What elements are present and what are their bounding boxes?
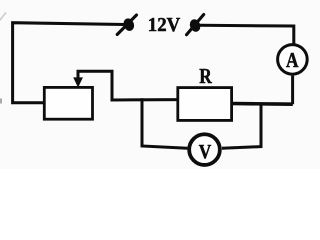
- wire : battery right terminal to top-right corner down to ammeter: [200, 25, 294, 43]
- svg-text:A: A: [286, 48, 299, 72]
- resistor R: [178, 64, 232, 120]
- ammeter A1: [278, 45, 308, 75]
- wire : wiper lead from rheostat arrow up over to resistor left lead: [78, 71, 178, 100]
- wire : voltmeter right branch, tee on right wire down to voltmeter: [222, 103, 261, 149]
- rheostat wiper arrowhead: [73, 77, 83, 87]
- scan artifact tick at left edge: [0, 99, 2, 104]
- svg-text:R: R: [199, 64, 212, 88]
- wire : resistor right lead to ammeter branch: [232, 102, 293, 106]
- battery terminal (right): [187, 15, 204, 35]
- wire : top-left loop from battery left terminal, down left side, into rheostat: [13, 23, 125, 103]
- rheostat (variable resistor box): [44, 87, 92, 119]
- wire : voltmeter left branch, tee on middle wire down to voltmeter: [142, 98, 187, 148]
- voltmeter V1: [189, 134, 220, 165]
- svg-text:V: V: [199, 142, 212, 163]
- wire : ammeter bottom down to main middle wire: [291, 76, 294, 105]
- battery terminal (left): [117, 15, 136, 35]
- svg-text:12V: 12V: [148, 14, 181, 36]
- scan artifact stroke at left edge: [0, 13, 6, 21]
